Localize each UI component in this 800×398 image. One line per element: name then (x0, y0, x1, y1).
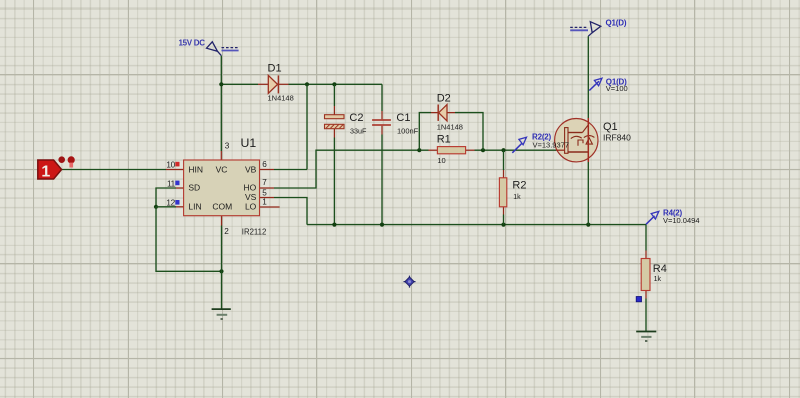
svg-text:10: 10 (437, 156, 445, 165)
wire HO lead (260, 187, 275, 189)
node VC junction (219, 82, 223, 86)
wire R4 to ground (645, 299, 647, 332)
wire R2 bottom (503, 215, 505, 225)
svg-text:100nF: 100nF (397, 127, 419, 136)
wire D2 branch left (419, 113, 431, 151)
capacitor C1 (372, 119, 391, 126)
svg-text:C2: C2 (349, 112, 363, 124)
svg-text:D2: D2 (437, 93, 451, 105)
wire HIN lead (166, 169, 184, 171)
svg-text:VB: VB (245, 164, 257, 174)
op-amp U1 body (IR2112 driver) (184, 160, 260, 216)
transistor Q1 (IRF840 MOSFET) (555, 118, 598, 162)
ground (under U1) (212, 309, 231, 319)
svg-text:1: 1 (41, 164, 50, 181)
diode D1 (268, 75, 278, 93)
wire HIN input (62, 169, 166, 171)
svg-text:1N4148: 1N4148 (437, 122, 463, 131)
voltage probe R2(2) (512, 137, 526, 153)
svg-text:2: 2 (224, 227, 229, 236)
svg-text:3: 3 (225, 142, 230, 151)
wire VS lead (260, 197, 275, 199)
wire gate net right (475, 149, 557, 151)
svg-text:1: 1 (262, 198, 267, 207)
svg-text:C1: C1 (396, 112, 410, 124)
wire C1 vertical bottom (381, 135, 383, 225)
wire C2 vertical top (333, 84, 335, 106)
power terminal 15V DC (207, 42, 239, 56)
wire HO net to gate (274, 150, 429, 188)
svg-text:VS: VS (245, 192, 257, 202)
node C2 bottom junction (332, 223, 336, 227)
svg-text:LIN: LIN (188, 202, 201, 212)
wire SD lead (176, 187, 184, 189)
wire VC lead (220, 151, 222, 160)
wire VB lead (260, 169, 275, 171)
wire D2 left lead (431, 112, 438, 114)
svg-text:HIN: HIN (188, 164, 203, 174)
wire R4 bottom lead (645, 291, 647, 299)
node Q1 source junction (586, 223, 590, 227)
wire R2 top (503, 150, 505, 170)
wire VB horizontal (274, 169, 307, 171)
wire SD to LIN tie (156, 188, 176, 207)
pin 12 state square (blue) (175, 200, 179, 205)
wire VS net (274, 198, 307, 225)
wire R4 branch (645, 225, 647, 251)
node R2 bottom junction (501, 223, 505, 227)
svg-text:12: 12 (166, 198, 175, 207)
wire Q1 drain vertical (587, 36, 589, 118)
svg-text:HO: HO (244, 182, 257, 192)
wire C2 bottom lead (333, 129, 335, 138)
svg-text:7: 7 (262, 178, 267, 187)
svg-text:D1: D1 (268, 63, 282, 75)
node R2 top junction (501, 148, 505, 152)
svg-text:10: 10 (166, 161, 175, 170)
wire LO lead (260, 206, 280, 208)
wire VB vertical (306, 84, 308, 169)
node VB junction (305, 82, 309, 86)
resistor R4 (641, 259, 650, 291)
svg-text:COM: COM (212, 202, 232, 212)
wire LIN tie (156, 206, 176, 208)
wire C2 top lead (333, 106, 335, 115)
svg-text:V=13.9377: V=13.9377 (533, 140, 570, 149)
power terminal Q1(D) top (570, 22, 601, 37)
wire D2 right lead (447, 112, 455, 114)
svg-text:15V DC: 15V DC (179, 39, 206, 48)
wire ground run from SD-LIN (156, 207, 222, 271)
wire R4 top lead (645, 251, 647, 259)
wire D1 right lead (278, 83, 289, 85)
svg-text:11: 11 (167, 179, 176, 188)
wire bottom rail (307, 224, 646, 226)
svg-text:R4: R4 (653, 263, 667, 275)
wire C1 bottom lead (381, 126, 383, 135)
node C1 bottom junction (380, 223, 384, 227)
svg-text:IR2112: IR2112 (242, 228, 267, 237)
wire LIN lead (176, 206, 184, 208)
wire C1 vertical top (381, 84, 383, 111)
wire COM to ground (221, 226, 223, 310)
wire COM lead (221, 216, 223, 226)
node COM junction (219, 269, 223, 273)
svg-text:1k: 1k (513, 194, 521, 201)
pin 11 state square (blue) (175, 181, 179, 186)
voltage probe Q1(D) (589, 78, 602, 90)
svg-text:SD: SD (188, 182, 200, 192)
resistor R1 (437, 147, 465, 154)
wire 15V supply drop to VC (220, 56, 222, 151)
wire C2 vertical bottom (333, 138, 335, 225)
node D2 left junction (417, 148, 421, 152)
svg-text:Q1(D): Q1(D) (606, 18, 627, 27)
wire R2 bottom lead (503, 207, 505, 215)
svg-text:33uF: 33uF (350, 126, 367, 135)
ground (under R4) (636, 332, 656, 342)
svg-text:VC: VC (216, 164, 228, 174)
input terminal 1 (logic input) (38, 156, 75, 180)
node SD-LIN junction (154, 205, 158, 209)
svg-text:V=100: V=100 (606, 84, 628, 93)
voltage probe R4(2) (646, 211, 659, 224)
capacitor C2 (electrolytic) (325, 115, 345, 129)
svg-text:V=10.0494: V=10.0494 (663, 216, 700, 225)
wire D1 left lead (258, 83, 268, 85)
origin marker (blue diamond) (404, 276, 416, 288)
svg-text:6: 6 (262, 160, 267, 169)
wire R1 right lead (466, 149, 475, 151)
node D2 right junction (481, 148, 485, 152)
resistor R2 (499, 178, 506, 207)
wire Q1 source vertical (587, 162, 589, 225)
svg-text:U1: U1 (241, 136, 257, 150)
pin 10 state square (red) (175, 162, 179, 167)
node C2 top junction (332, 82, 336, 86)
svg-text:5: 5 (262, 188, 267, 197)
wire C1 top lead (381, 111, 383, 119)
diode D2 (438, 105, 447, 121)
svg-text:1N4148: 1N4148 (268, 94, 294, 103)
R4 probe square (blue) (636, 297, 641, 302)
svg-text:R1: R1 (437, 134, 451, 146)
svg-text:LO: LO (245, 202, 257, 212)
svg-text:R2: R2 (512, 179, 526, 191)
wire D2 branch right (455, 113, 483, 151)
wire top net to C1 (289, 83, 383, 85)
svg-text:IRF840: IRF840 (603, 132, 631, 142)
wire R2 top lead (503, 170, 505, 178)
wire top net y=84 (221, 83, 258, 85)
wire R1 left lead (429, 149, 438, 151)
svg-text:1k: 1k (654, 276, 662, 283)
